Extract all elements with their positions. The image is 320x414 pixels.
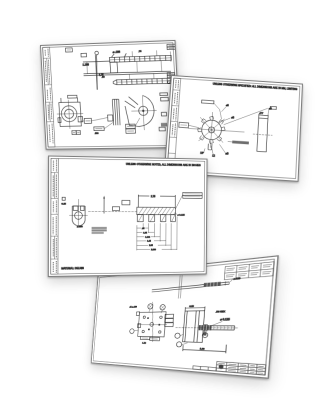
sheet 1: arm assembly drawing (top-left) (40, 40, 181, 150)
svg-text:4X ⌀.129: 4X ⌀.129 (129, 305, 137, 309)
sprocket gear (197, 115, 226, 144)
svg-text:.177: .177 (259, 113, 264, 115)
sheet 2: sprocket drawing (top-right) (164, 75, 303, 182)
svg-text:0.50: 0.50 (189, 306, 194, 309)
svg-text:1.05: 1.05 (143, 232, 148, 234)
title block top-right (224, 262, 274, 280)
callout boxes top-right (167, 44, 175, 49)
big circle (61, 106, 77, 122)
left dim box (179, 122, 199, 128)
top dim 2.75 (138, 195, 175, 208)
callout boxes near plate (157, 93, 170, 131)
balloon left (130, 329, 135, 334)
dim boxes mid-bottom (94, 127, 105, 135)
callout above square (68, 95, 77, 98)
dim below side view (183, 343, 227, 353)
box right of square (81, 118, 92, 123)
side plate view (174, 310, 240, 344)
svg-text:⌀B: ⌀B (231, 116, 235, 119)
stripes view (107, 99, 120, 125)
dark dim bar (228, 140, 249, 144)
svg-text:MATERIAL: DELRIN: MATERIAL: DELRIN (61, 267, 84, 270)
dowel pin (151, 270, 241, 300)
svg-text:1.188: 1.188 (82, 63, 89, 66)
dim rows (137, 216, 177, 250)
title strip sheet3 (51, 158, 59, 274)
inner circle (64, 109, 73, 118)
front plate view (134, 301, 175, 343)
dim line top (111, 53, 126, 57)
svg-text:⌀B: ⌀B (225, 152, 229, 155)
left view circle (75, 212, 83, 220)
side view dim (259, 114, 269, 119)
border frame sheet1 (43, 43, 179, 147)
hatched block (137, 207, 176, 214)
svg-text:2.100: 2.100 (151, 249, 157, 251)
stacked boxes bottom-left of plate (126, 124, 136, 133)
left view centerlines (69, 199, 88, 227)
link plate view (125, 95, 155, 126)
svg-text:0.25: 0.25 (61, 203, 66, 205)
mid callout boxes (112, 200, 129, 210)
svg-text:2.75: 2.75 (151, 195, 156, 198)
border frame sheet2 (167, 78, 300, 179)
svg-text:⌀-.188: ⌀-.188 (113, 50, 121, 53)
border frame sheet3 (51, 158, 205, 274)
leader line (95, 55, 98, 90)
shaft centerline (88, 210, 137, 212)
tooth detail (208, 144, 212, 150)
svg-text:.50 HEX: .50 HEX (215, 311, 226, 314)
small callout top-left (62, 197, 65, 200)
balloons below side (175, 333, 181, 338)
svg-text:⌀ 0.125: ⌀ 0.125 (177, 214, 185, 217)
balloon A (148, 304, 153, 309)
balloon B (160, 305, 166, 311)
svg-text:.500: .500 (95, 133, 99, 135)
svg-text:2.05: 2.05 (149, 245, 154, 247)
TR callout boxes (176, 192, 203, 209)
title block bottom-right (193, 360, 266, 375)
bearing square block (59, 97, 82, 126)
gear centerlines (187, 111, 245, 150)
svg-text:1.50: 1.50 (142, 342, 146, 344)
svg-text:.05: .05 (142, 228, 146, 230)
witness verticals bars (86, 50, 171, 81)
right tab (78, 116, 83, 122)
dark stack callout (92, 227, 107, 234)
svg-text:1.00: 1.00 (200, 348, 205, 351)
side callout (268, 106, 276, 115)
gear hub (208, 127, 214, 133)
svg-text:12: 12 (212, 155, 216, 157)
centerlines (56, 99, 84, 129)
pin circle callout (95, 51, 99, 55)
lower bar (113, 78, 170, 85)
svg-text:⌀.125: ⌀.125 (233, 276, 240, 281)
svg-text:⌀8: ⌀8 (226, 104, 230, 107)
left tab (58, 118, 61, 123)
svg-text:.75: .75 (138, 51, 142, 53)
svg-text:⌀.250: ⌀.250 (77, 225, 83, 228)
callout boxes right-mid (167, 72, 175, 83)
svg-text:1.15: 1.15 (147, 241, 152, 243)
svg-text:.50: .50 (102, 77, 106, 79)
svg-text:1.75: 1.75 (99, 75, 104, 77)
gear callout top (201, 100, 223, 119)
link hub circle (138, 106, 148, 115)
link centerlines (131, 96, 158, 131)
sheet 3: shaft drawing (middle-left) (48, 156, 208, 277)
svg-text:⌀ 0.125: ⌀ 0.125 (220, 318, 230, 322)
side view rect (252, 118, 273, 152)
comb teeth (137, 215, 175, 222)
mid rail lines (83, 53, 172, 90)
sheet 4: pin and plate drawing (bottom-right) (91, 255, 279, 379)
upper bar (109, 55, 172, 73)
boxes below plate (140, 336, 160, 345)
border frame sheet4 (93, 259, 274, 375)
svg-text:UNLESS OTHERWISE NOTED, ALL DI: UNLESS OTHERWISE NOTED, ALL DIMENSIONS A… (126, 163, 201, 167)
boxes below square (72, 131, 81, 135)
leader lines assorted (91, 117, 140, 129)
title strip sheet1 (43, 47, 55, 147)
title strip sheet2 (167, 78, 181, 171)
svg-text:1.100: 1.100 (145, 237, 151, 239)
mid vertical line (103, 197, 106, 214)
dim above side plate (185, 306, 205, 311)
left bracket view (72, 206, 85, 226)
